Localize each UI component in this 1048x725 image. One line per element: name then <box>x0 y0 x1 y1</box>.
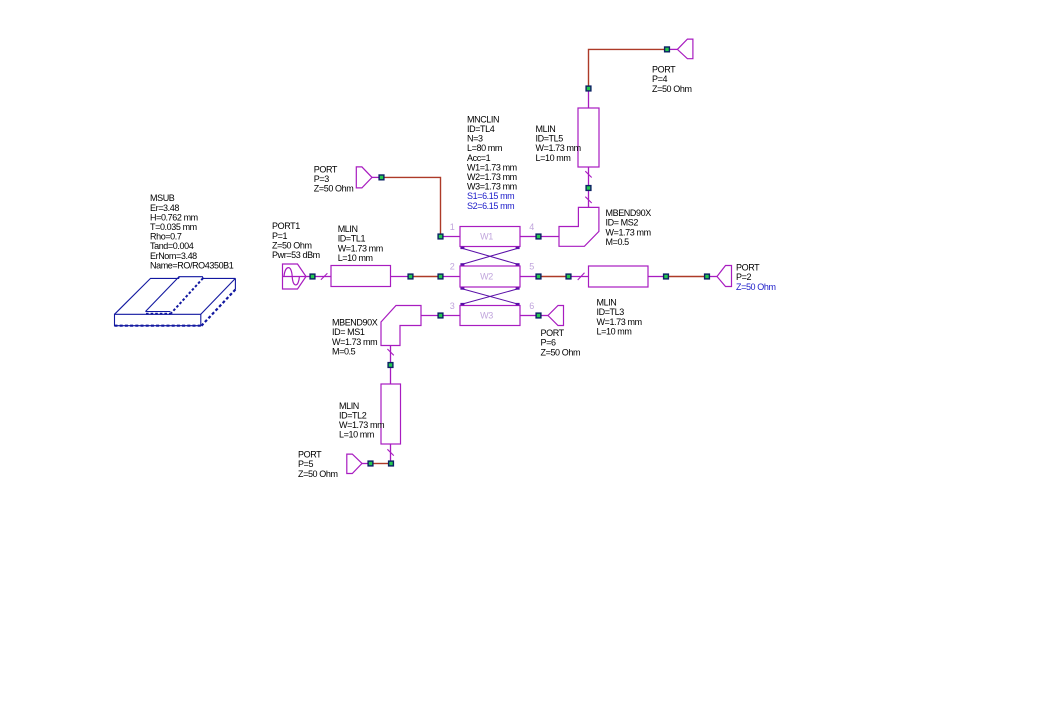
lead MS1 bottom <box>390 346 392 363</box>
svg-text:W=1.73 mm: W=1.73 mm <box>339 420 384 430</box>
port P1 source symbol <box>283 264 307 289</box>
MBEND90X MS2 label <box>606 208 652 247</box>
coupled line MNCLIN W2 bar <box>460 266 520 287</box>
svg-text:Er=3.48: Er=3.48 <box>150 203 179 213</box>
svg-text:S2=6.15 mm: S2=6.15 mm <box>467 201 514 211</box>
svg-text:MLIN: MLIN <box>339 401 359 411</box>
lead port P4 to pin <box>670 48 678 50</box>
svg-text:Z=50 Ohm: Z=50 Ohm <box>298 469 338 479</box>
svg-text:P=4: P=4 <box>652 74 667 84</box>
svg-text:L=10 mm: L=10 mm <box>597 326 632 336</box>
svg-text:ID=TL2: ID=TL2 <box>339 411 367 421</box>
lead TL2 bottom <box>390 444 392 461</box>
port P1 label <box>272 221 320 260</box>
svg-text:PORT: PORT <box>314 165 338 175</box>
svg-text:Acc=1: Acc=1 <box>467 153 491 163</box>
pin tick on TL1 left lead <box>321 273 328 280</box>
pin junction MNCLIN pin3 <box>438 313 443 318</box>
pin junction TL2 bottom <box>389 461 394 466</box>
port P6 label <box>541 328 581 357</box>
svg-text:W=1.73 mm: W=1.73 mm <box>536 143 581 153</box>
svg-text:P=5: P=5 <box>298 459 313 469</box>
pin junction TL5 to MS2 <box>586 186 591 191</box>
svg-text:W3: W3 <box>480 310 493 320</box>
svg-text:W=1.73 mm: W=1.73 mm <box>597 317 642 327</box>
svg-text:ID= MS2: ID= MS2 <box>606 218 639 228</box>
svg-text:Z=50 Ohm: Z=50 Ohm <box>314 184 354 194</box>
svg-text:PORT: PORT <box>541 328 565 338</box>
lead port P1 to pin <box>306 276 310 278</box>
lead MNCLIN pin6 to port P6 <box>541 315 548 317</box>
svg-text:W3=1.73 mm: W3=1.73 mm <box>467 182 517 192</box>
svg-text:ID=TL3: ID=TL3 <box>597 307 625 317</box>
microstrip line TL2 body <box>381 384 401 444</box>
pin junction MNCLIN pin2 <box>438 274 443 279</box>
svg-text:ID=TL5: ID=TL5 <box>536 134 564 144</box>
port P2 label <box>736 263 776 292</box>
pin junction MNCLIN pin5 <box>536 274 541 279</box>
svg-text:MLIN: MLIN <box>536 124 556 134</box>
svg-text:ID=TL4: ID=TL4 <box>467 124 495 134</box>
svg-text:Tand=0.004: Tand=0.004 <box>150 241 194 251</box>
svg-text:Z=50 Ohm: Z=50 Ohm <box>652 84 692 94</box>
svg-text:6: 6 <box>529 301 534 311</box>
port P6 symbol <box>548 306 564 326</box>
wire port P3 to MNCLIN pin1 <box>384 177 441 234</box>
coupled line MNCLIN TL4 label <box>467 114 517 210</box>
pin tick on TL3 left lead <box>578 273 585 280</box>
lead MS1 right to MNCLIN pin3 <box>421 315 438 317</box>
microstrip line TL5 body <box>578 108 599 167</box>
svg-text:ErNom=3.48: ErNom=3.48 <box>150 251 197 261</box>
substrate MSUB parameter text <box>150 193 234 270</box>
svg-text:ID= MS1: ID= MS1 <box>332 327 365 337</box>
lead MNCLIN pin2 <box>443 276 460 278</box>
svg-text:S1=6.15 mm: S1=6.15 mm <box>467 191 514 201</box>
port P5 symbol <box>347 454 362 473</box>
microstrip line TL3 body <box>589 266 649 287</box>
pin junction port P5 <box>368 461 373 466</box>
wire MNCLIN pin5 to TL3 <box>541 276 566 278</box>
bend MBEND90X MS1 body <box>381 306 421 346</box>
svg-text:PORT: PORT <box>652 65 676 75</box>
pin junction TL1 right <box>408 274 413 279</box>
pin junction MNCLIN pin1 <box>438 234 443 239</box>
svg-text:W2: W2 <box>480 271 493 281</box>
lead pin to port P2 <box>710 276 718 278</box>
svg-text:MNCLIN: MNCLIN <box>467 114 499 124</box>
svg-text:Rho=0.7: Rho=0.7 <box>150 232 182 242</box>
pin junction port P2 <box>705 274 710 279</box>
svg-text:L=80 mm: L=80 mm <box>467 143 502 153</box>
svg-text:W1: W1 <box>480 231 493 241</box>
port P4 symbol <box>677 39 693 59</box>
port P3 label <box>314 165 354 194</box>
svg-text:T=0.035 mm: T=0.035 mm <box>150 222 197 232</box>
svg-text:5: 5 <box>529 261 534 271</box>
wire port P4 to TL5 <box>589 49 665 86</box>
svg-text:Name=RO/RO4350B1: Name=RO/RO4350B1 <box>150 260 234 270</box>
coupling cross W2-W3 <box>460 287 519 305</box>
svg-text:P=6: P=6 <box>541 338 556 348</box>
port P3 symbol <box>356 167 372 188</box>
svg-text:1: 1 <box>450 222 455 232</box>
coupling cross W1-W2 <box>460 247 519 266</box>
pin junction port P4 <box>665 47 670 52</box>
svg-text:P=1: P=1 <box>272 231 287 241</box>
lead MNCLIN pin1 <box>443 236 460 238</box>
lead pin P1 to TL1 <box>315 276 331 278</box>
wire TL1 to MNCLIN pin2 <box>413 276 438 278</box>
svg-text:MLIN: MLIN <box>338 224 358 234</box>
svg-text:PORT: PORT <box>736 263 760 273</box>
pin junction TL5 top <box>586 86 591 91</box>
svg-text:PORT: PORT <box>298 450 322 460</box>
coupled line MNCLIN W3 bar <box>460 306 520 326</box>
wire TL3 to port P2 <box>669 276 705 278</box>
pin junction TL3 right <box>664 274 669 279</box>
lead MNCLIN pin3 <box>443 315 460 317</box>
lead port P3 to pin <box>372 176 379 178</box>
svg-text:4: 4 <box>529 222 534 232</box>
resistor-like microstrip line TL1 body <box>331 266 391 287</box>
pin junction TL3 left <box>566 274 571 279</box>
svg-text:MSUB: MSUB <box>150 193 175 203</box>
svg-text:H=0.762 mm: H=0.762 mm <box>150 212 198 222</box>
svg-text:L=10 mm: L=10 mm <box>338 253 373 263</box>
port P5 label <box>298 450 338 479</box>
svg-text:Pwr=53 dBm: Pwr=53 dBm <box>272 250 320 260</box>
pin junction port P1 <box>310 274 315 279</box>
svg-text:M=0.5: M=0.5 <box>332 346 356 356</box>
svg-text:ID=TL1: ID=TL1 <box>338 234 366 244</box>
substrate MSUB 3D graphic <box>115 277 236 326</box>
pin tick on TL5 bottom lead <box>585 171 591 177</box>
lead TL3 right <box>648 276 664 278</box>
pin junction MS1 to TL2 <box>388 363 393 368</box>
svg-text:Z=50 Ohm: Z=50 Ohm <box>272 240 312 250</box>
svg-text:W=1.73 mm: W=1.73 mm <box>338 243 383 253</box>
pin junction port P3 <box>379 175 384 180</box>
lead pin to TL3 <box>571 276 589 278</box>
svg-text:MBEND90X: MBEND90X <box>332 318 378 328</box>
port P4 label <box>652 65 692 94</box>
pin tick on MS2 top lead <box>585 197 591 203</box>
bend MBEND90X MS2 body <box>559 207 599 246</box>
pin tick on MS1 bottom lead <box>387 349 393 355</box>
MLIN TL5 label <box>536 124 581 163</box>
svg-text:MBEND90X: MBEND90X <box>606 208 652 218</box>
lead pin to TL2 top <box>390 368 392 385</box>
svg-text:L=10 mm: L=10 mm <box>339 430 374 440</box>
coupled line MNCLIN W1 bar <box>460 227 520 247</box>
svg-text:Z=50 Ohm: Z=50 Ohm <box>736 282 776 292</box>
lead pin to MBEND90X MS2 top <box>588 191 590 208</box>
svg-text:W1=1.73 mm: W1=1.73 mm <box>467 162 517 172</box>
wire TL2 to port P5 <box>373 463 389 465</box>
svg-text:3: 3 <box>450 301 455 311</box>
MLIN TL3 label <box>597 298 642 337</box>
lead MNCLIN pin4 <box>520 236 536 238</box>
MLIN TL1 label <box>338 224 383 263</box>
svg-text:L=10 mm: L=10 mm <box>536 153 571 163</box>
pin tick on TL2 bottom lead <box>387 449 393 455</box>
lead MS2 left to MNCLIN pin4 <box>541 236 559 238</box>
lead port P5 to pin <box>362 463 368 465</box>
svg-text:W=1.73 mm: W=1.73 mm <box>332 337 377 347</box>
lead MNCLIN pin5 <box>520 276 536 278</box>
svg-text:2: 2 <box>450 261 455 271</box>
svg-text:Z=50 Ohm: Z=50 Ohm <box>541 347 581 357</box>
svg-text:P=3: P=3 <box>314 174 329 184</box>
svg-text:M=0.5: M=0.5 <box>606 237 630 247</box>
pin junction MNCLIN pin6 <box>536 313 541 318</box>
port P2 symbol <box>717 266 732 287</box>
MLIN TL2 label <box>339 401 384 440</box>
svg-text:W2=1.73 mm: W2=1.73 mm <box>467 172 517 182</box>
MBEND90X MS1 label <box>332 318 378 357</box>
lead MNCLIN pin6 <box>520 315 536 317</box>
lead TL1 right <box>391 276 409 278</box>
pin junction MNCLIN pin4 <box>536 234 541 239</box>
svg-text:P=2: P=2 <box>736 272 751 282</box>
svg-text:MLIN: MLIN <box>597 298 617 308</box>
svg-text:W=1.73 mm: W=1.73 mm <box>606 227 651 237</box>
svg-text:PORT1: PORT1 <box>272 221 300 231</box>
lead TL5 top <box>588 91 590 108</box>
lead TL5 bottom <box>588 167 590 186</box>
svg-text:N=3: N=3 <box>467 134 483 144</box>
